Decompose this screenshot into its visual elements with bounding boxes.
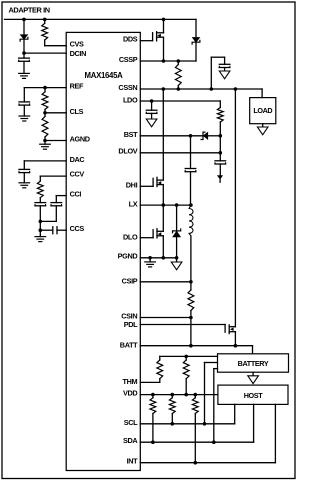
svg-text:CSSP: CSSP [119,55,138,64]
svg-text:BATT: BATT [120,340,138,349]
svg-text:LDO: LDO [123,95,138,104]
svg-text:CSSN: CSSN [118,83,137,92]
svg-text:SDA: SDA [123,436,138,445]
svg-text:CCI: CCI [70,190,82,199]
svg-text:SCL: SCL [124,418,138,427]
svg-text:CCV: CCV [70,170,85,179]
svg-text:DHI: DHI [126,181,138,190]
svg-text:CCS: CCS [70,224,85,233]
svg-text:ADAPTER IN: ADAPTER IN [9,6,50,15]
svg-text:HOST: HOST [244,391,264,400]
svg-text:BATTERY: BATTERY [238,359,269,368]
svg-text:VDD: VDD [123,389,137,398]
svg-text:DCIN: DCIN [70,49,87,58]
svg-text:DDS: DDS [123,34,138,43]
svg-text:PDL: PDL [124,320,138,329]
svg-text:DLOV: DLOV [118,147,137,156]
svg-text:LOAD: LOAD [253,106,272,115]
svg-text:PGND: PGND [118,252,138,261]
svg-text:REF: REF [70,82,84,91]
svg-text:AGND: AGND [70,135,90,144]
svg-text:THM: THM [123,377,138,386]
svg-text:MAX1645A: MAX1645A [85,71,124,80]
svg-text:DAC: DAC [70,155,86,164]
svg-text:LX: LX [129,199,138,208]
svg-text:CLS: CLS [70,107,84,116]
svg-text:BST: BST [124,130,138,139]
svg-text:INT: INT [127,457,139,466]
svg-text:CSIP: CSIP [122,277,138,286]
svg-text:CVS: CVS [70,39,84,48]
svg-text:DLO: DLO [123,232,138,241]
